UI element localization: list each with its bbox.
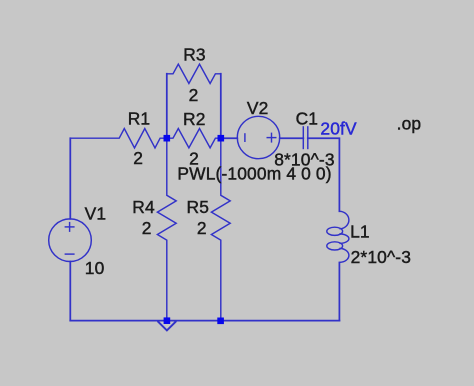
svg-text:2: 2 xyxy=(197,218,207,238)
svg-text:R5: R5 xyxy=(187,197,210,217)
svg-text:.op: .op xyxy=(397,113,422,133)
svg-text:C1: C1 xyxy=(296,108,319,128)
svg-text:R2: R2 xyxy=(183,109,206,129)
svg-text:20fV: 20fV xyxy=(320,119,357,139)
svg-text:V1: V1 xyxy=(85,204,107,224)
svg-text:V2: V2 xyxy=(247,98,269,118)
svg-text:2: 2 xyxy=(142,218,152,238)
svg-text:2: 2 xyxy=(133,148,143,168)
svg-text:L1: L1 xyxy=(350,222,370,242)
svg-text:R3: R3 xyxy=(183,45,206,65)
svg-text:2*10^-3: 2*10^-3 xyxy=(351,247,411,267)
svg-text:R1: R1 xyxy=(128,108,151,128)
svg-text:2: 2 xyxy=(189,85,199,105)
svg-text:R4: R4 xyxy=(132,197,155,217)
svg-text:10: 10 xyxy=(85,258,105,278)
svg-text:PWL(-1000m 4 0 0): PWL(-1000m 4 0 0) xyxy=(177,163,331,183)
